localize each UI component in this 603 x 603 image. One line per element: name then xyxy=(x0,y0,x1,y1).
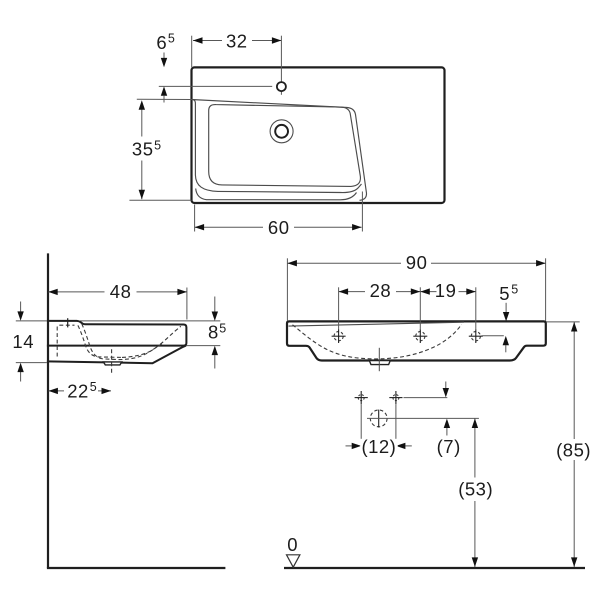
datum triangle xyxy=(287,555,300,567)
label (12) xyxy=(360,439,398,456)
svg-text:0: 0 xyxy=(287,534,298,555)
drain outer circle (plan) xyxy=(270,120,293,143)
fixing holes level line (7 dim top) xyxy=(404,397,448,399)
dashed bowl contour (front) xyxy=(293,324,462,359)
dimension line 32 xyxy=(193,40,281,42)
dimension line 90 xyxy=(287,262,545,264)
extension lines 90 dim xyxy=(286,258,288,320)
dimension 12 arrows xyxy=(346,445,352,447)
dimension 8-5 arrows xyxy=(214,297,216,312)
dashed bowl contour (inner left) xyxy=(78,325,122,357)
faucet hole vertical extension (32 dim) xyxy=(280,36,282,82)
drain flange (side) xyxy=(103,362,121,365)
basin front outline xyxy=(287,321,546,360)
extension lines fixing holes (12 dim) xyxy=(360,405,362,454)
bowl inner contour xyxy=(209,105,361,187)
washbasin deck outline (plan) xyxy=(192,67,445,203)
drain flange (front) xyxy=(369,361,390,365)
trap hole vertical tick xyxy=(378,410,380,428)
svg-text:5: 5 xyxy=(168,32,175,46)
extension line top (8.5 dim) xyxy=(80,320,220,322)
svg-text:(7): (7) xyxy=(437,436,461,457)
tap hole middle xyxy=(413,329,427,343)
dimension line 19 xyxy=(420,291,476,293)
tap hole left xyxy=(332,329,346,343)
svg-text:60: 60 xyxy=(268,217,290,238)
fixing hole right xyxy=(389,391,402,405)
dashed bowl contour (outer) xyxy=(82,324,181,360)
extension line tap hole level (5.5 dim) xyxy=(482,335,504,337)
dashed bowl contour (inner right) xyxy=(122,342,164,357)
dimension line 28 xyxy=(339,291,421,293)
dashed drain centerline (side) xyxy=(111,349,113,374)
svg-text:(85): (85) xyxy=(556,439,591,460)
svg-text:35: 35 xyxy=(132,139,154,160)
dimension line 35-5 xyxy=(141,106,143,199)
dimension 14 extensions xyxy=(16,320,47,322)
dimension line (53) xyxy=(474,418,476,567)
drain centerline (front) xyxy=(378,348,380,371)
fixing hole left xyxy=(355,391,368,405)
svg-text:48: 48 xyxy=(110,281,132,302)
deck slant line (front) xyxy=(289,322,465,326)
bowl bottom extension (35.5 dim) xyxy=(129,199,191,201)
floor line left xyxy=(47,567,226,569)
svg-text:5: 5 xyxy=(499,283,510,304)
svg-text:22: 22 xyxy=(67,380,89,401)
dimension 6-5 arrows xyxy=(163,53,165,59)
dimension line 22-5 xyxy=(48,390,111,392)
svg-text:(12): (12) xyxy=(361,436,396,457)
svg-text:90: 90 xyxy=(406,252,428,273)
extension lines 60 dim xyxy=(194,205,196,232)
floor line right xyxy=(284,567,585,569)
svg-text:14: 14 xyxy=(12,331,34,352)
svg-text:(53): (53) xyxy=(458,479,493,500)
trap hole dashed circle xyxy=(370,410,387,427)
svg-text:5: 5 xyxy=(511,283,518,297)
svg-text:5: 5 xyxy=(219,322,226,336)
extension line bottom (8.5 dim) xyxy=(186,345,220,347)
dimension line 48 xyxy=(48,291,187,293)
bowl bottom-left fillet curve xyxy=(196,189,357,200)
dashed overflow channel near wall xyxy=(57,325,74,356)
dimension line (85) xyxy=(573,322,575,567)
tap hole right xyxy=(469,329,483,343)
svg-text:5: 5 xyxy=(90,380,97,394)
dimension line 60 xyxy=(195,226,362,228)
faucet hole circle xyxy=(277,82,286,91)
wall line xyxy=(47,253,49,568)
extension lines 28/19 dims xyxy=(338,287,340,329)
dimension 5-5 arrows xyxy=(505,303,507,312)
dimension 7 arrows xyxy=(445,382,447,389)
svg-text:32: 32 xyxy=(226,31,248,52)
extension line left of bowl top (35.5 dim) xyxy=(137,98,192,100)
svg-text:19: 19 xyxy=(435,280,457,301)
extension line top right (85 dim) xyxy=(547,321,580,323)
svg-text:6: 6 xyxy=(156,32,167,53)
trap level line (7/53 dim) xyxy=(367,417,479,419)
faucet hole tick (side) xyxy=(67,318,69,327)
dimension 14 arrows xyxy=(20,302,22,312)
basin underside contour xyxy=(47,346,186,364)
svg-text:5: 5 xyxy=(154,138,161,152)
svg-text:28: 28 xyxy=(370,280,392,301)
extension line deck left edge up (32 dim) xyxy=(191,36,193,68)
bowl outer rim left/bottom contour xyxy=(193,100,361,193)
basin profile top edge / right edge / bottom xyxy=(47,321,187,346)
bowl outer rim top slant + right slant edge xyxy=(192,100,367,201)
faucet hole horizontal line xyxy=(159,85,272,87)
drain inner circle (plan) xyxy=(275,125,288,138)
svg-text:8: 8 xyxy=(208,322,219,343)
